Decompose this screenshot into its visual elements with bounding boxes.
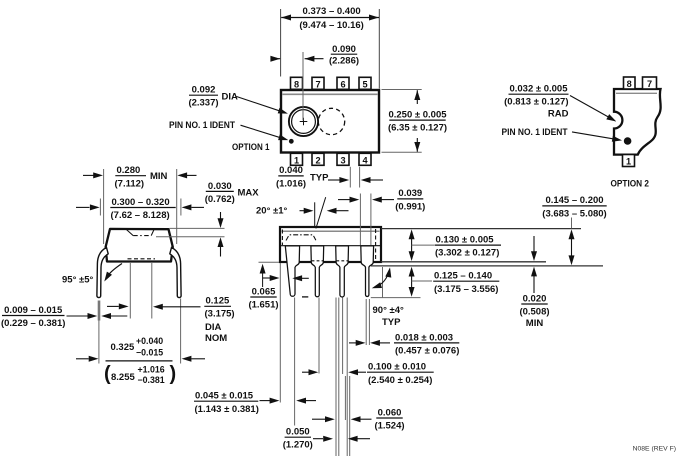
extension line: body top (right) bbox=[381, 228, 581, 230]
svg-text:N08E (REV F): N08E (REV F) bbox=[633, 446, 676, 453]
svg-text:0.325: 0.325 bbox=[111, 342, 135, 353]
svg-text:0.092: 0.092 bbox=[192, 85, 216, 96]
end view: left lead bbox=[97, 248, 108, 298]
dimension 0.325 +0.040/-0.015 row spacing bbox=[76, 358, 89, 360]
svg-text:RAD: RAD bbox=[548, 109, 569, 120]
extension line: lead 1 bbox=[294, 298, 296, 426]
svg-text:(3.302 ± 0.127): (3.302 ± 0.127) bbox=[435, 248, 499, 259]
svg-text:(1.270): (1.270) bbox=[283, 440, 313, 451]
extension line: lead 4 left bbox=[365, 299, 367, 345]
dimension 0.039 bbox=[359, 194, 361, 246]
svg-text:4: 4 bbox=[362, 155, 368, 165]
svg-text:0.060: 0.060 bbox=[378, 407, 402, 418]
svg-text:7: 7 bbox=[315, 79, 320, 89]
svg-text:0.030: 0.030 bbox=[208, 181, 232, 192]
dimension 0.018 +/-0.003 lead width bbox=[349, 342, 356, 344]
svg-text:0.125: 0.125 bbox=[206, 296, 230, 307]
side view: dashed end line left bbox=[281, 230, 283, 246]
side view: package body outline bbox=[280, 227, 381, 262]
extension line: lead 3 centre bbox=[344, 376, 346, 420]
svg-text:(0.991): (0.991) bbox=[395, 201, 425, 212]
svg-text:(0.508): (0.508) bbox=[519, 307, 549, 318]
svg-text:0.065: 0.065 bbox=[252, 286, 276, 297]
svg-text:OPTION 1: OPTION 1 bbox=[232, 142, 270, 153]
extension line: body bottom (left) bbox=[259, 261, 280, 263]
svg-text:−0.381: −0.381 bbox=[138, 375, 165, 385]
svg-text:(1.143 ± 0.381): (1.143 ± 0.381) bbox=[195, 404, 259, 415]
side view: seam line bbox=[281, 245, 380, 247]
side view: dashed end line bbox=[375, 229, 377, 261]
svg-text:−0.015: −0.015 bbox=[136, 347, 163, 357]
end view: lead thickness gauge bar bbox=[98, 301, 101, 321]
svg-text:90° ±4°: 90° ±4° bbox=[373, 305, 405, 316]
top view: alternate ident dashed circle bbox=[318, 108, 344, 134]
option 2 view: package corner outline bbox=[614, 89, 661, 155]
svg-text:0.100 ± 0.010: 0.100 ± 0.010 bbox=[368, 362, 426, 373]
dimension 90 deg typ lead angle bbox=[376, 271, 390, 288]
svg-text:0.373 – 0.400: 0.373 – 0.400 bbox=[303, 6, 361, 17]
top view: package body outline bbox=[281, 90, 379, 153]
option 2 view: pin no. 1 ident dot bbox=[624, 137, 632, 145]
svg-text:(3.175): (3.175) bbox=[205, 309, 235, 320]
top view: pin 7 lead tab bbox=[312, 77, 324, 89]
svg-text:(3.683 – 5.080): (3.683 – 5.080) bbox=[542, 208, 606, 219]
svg-text:20° ±1°: 20° ±1° bbox=[256, 206, 288, 217]
extension line: lead tip plane bbox=[371, 297, 421, 299]
svg-text:0.250 ± 0.005: 0.250 ± 0.005 bbox=[388, 109, 447, 120]
svg-text:+1.016: +1.016 bbox=[138, 364, 165, 374]
svg-text:(0.229 – 0.381): (0.229 – 0.381) bbox=[1, 318, 65, 329]
end view: right lead extension line bbox=[180, 299, 182, 364]
svg-text:0.020: 0.020 bbox=[523, 293, 547, 304]
extension line: lead 4 right bbox=[368, 299, 370, 345]
end view: package body outline bbox=[106, 229, 173, 262]
svg-text:DIA: DIA bbox=[222, 92, 239, 103]
top view: pin 2 lead tab bbox=[312, 153, 324, 165]
side view: dash-dot ident mark bbox=[286, 235, 316, 241]
svg-text:1: 1 bbox=[626, 157, 631, 167]
svg-text:DIA: DIA bbox=[205, 322, 222, 333]
svg-text:0.045 ± 0.015: 0.045 ± 0.015 bbox=[195, 391, 254, 402]
side view: seating plane tick bbox=[302, 296, 308, 298]
svg-text:+0.040: +0.040 bbox=[136, 336, 163, 346]
svg-text:1: 1 bbox=[294, 155, 299, 165]
svg-text:0.130 ± 0.005: 0.130 ± 0.005 bbox=[436, 234, 495, 245]
extension line: lead 3 outer right bbox=[349, 376, 351, 456]
svg-text:8.255: 8.255 bbox=[111, 372, 135, 383]
svg-text:(7.62 – 8.128): (7.62 – 8.128) bbox=[111, 210, 170, 221]
side view: lead 4 bbox=[361, 246, 374, 297]
svg-text:(: ( bbox=[104, 363, 111, 385]
extension line: seating plane bbox=[371, 265, 603, 267]
dimension 0.373-0.400 package length bbox=[280, 9, 282, 77]
dimension 0.100 +/-0.010 lead pitch bbox=[302, 371, 309, 373]
svg-text:(1.651): (1.651) bbox=[248, 300, 278, 311]
extension line: lead 3 wide right bbox=[346, 298, 348, 457]
svg-text:MAX: MAX bbox=[238, 187, 260, 198]
svg-text:(1.016): (1.016) bbox=[276, 178, 306, 189]
svg-text:0.280: 0.280 bbox=[117, 165, 141, 176]
extension line: body bottom (right) bbox=[381, 261, 546, 263]
dimension 0.250 +/-0.005 package width bbox=[382, 89, 422, 91]
svg-text:): ) bbox=[170, 363, 177, 385]
svg-text:0.145 – 0.200: 0.145 – 0.200 bbox=[545, 195, 603, 206]
svg-text:(0.813 ± 0.127): (0.813 ± 0.127) bbox=[504, 97, 568, 108]
dimension 0.090 ident location bbox=[302, 52, 304, 121]
dimension 0.030 max seam offset bbox=[170, 227, 225, 229]
dimension 95 deg lead angle bbox=[106, 264, 122, 279]
svg-text:OPTION 2: OPTION 2 bbox=[611, 178, 650, 189]
svg-text:TYP: TYP bbox=[382, 317, 401, 328]
top view: pin 3 lead tab bbox=[337, 153, 349, 165]
svg-text:0.018 ± 0.003: 0.018 ± 0.003 bbox=[395, 332, 453, 343]
svg-text:(3.175 – 3.556): (3.175 – 3.556) bbox=[434, 284, 498, 295]
extension line: lead 3 narrow left bbox=[338, 298, 340, 457]
top view: pin 6 lead tab bbox=[337, 77, 349, 89]
end view: top seam dashed ident bbox=[127, 230, 134, 236]
svg-text:0.300 – 0.320: 0.300 – 0.320 bbox=[112, 197, 170, 208]
svg-text:0.090: 0.090 bbox=[332, 44, 356, 55]
svg-text:5: 5 bbox=[362, 79, 367, 89]
top view: pin 1 lead tab bbox=[291, 153, 303, 165]
extension line: lead 3 wide left bbox=[335, 298, 337, 457]
svg-text:8: 8 bbox=[627, 79, 632, 89]
dimension 0.130 +/-0.005 body height bbox=[411, 234, 413, 258]
svg-text:8: 8 bbox=[294, 79, 299, 89]
dimension 0.060 lead shoulder width bbox=[312, 418, 325, 420]
extension line: lead 3 narrow right bbox=[342, 298, 344, 375]
side view: hidden edge mark on lead 2 bbox=[312, 260, 323, 262]
svg-text:(1.524): (1.524) bbox=[374, 421, 404, 432]
svg-text:0.050: 0.050 bbox=[286, 427, 310, 438]
svg-text:MIN: MIN bbox=[526, 318, 544, 329]
side view: hidden edge mark on lead 3 bbox=[336, 260, 347, 262]
option 2 view: pin 8 lead tab bbox=[624, 77, 636, 89]
top view: pin 8 lead tab bbox=[291, 77, 303, 89]
svg-text:(0.762): (0.762) bbox=[205, 194, 235, 205]
svg-text:(2.540 ± 0.254): (2.540 ± 0.254) bbox=[368, 375, 432, 386]
side view: lead 1 bbox=[285, 246, 299, 296]
dimension 0.125-0.140 standoff bbox=[411, 271, 413, 294]
svg-text:7: 7 bbox=[647, 79, 652, 89]
option 2 view: pin 1 lead tab bbox=[623, 155, 635, 167]
dimension 0.065 body edge to lead bbox=[262, 267, 264, 287]
extension line: body left edge bbox=[279, 263, 281, 403]
svg-text:95° ±5°: 95° ±5° bbox=[62, 275, 94, 286]
top view: pin 5 lead tab bbox=[359, 77, 371, 89]
svg-text:(7.112): (7.112) bbox=[115, 178, 145, 189]
dimension 0.040 typ pin tab bbox=[349, 167, 351, 188]
svg-text:NOM: NOM bbox=[205, 333, 227, 344]
top view: pin 4 lead tab bbox=[359, 153, 371, 165]
side view: lead 2 bbox=[311, 246, 324, 297]
option 2 view: pin 7 lead tab bbox=[643, 77, 657, 89]
svg-text:PIN NO. 1 IDENT: PIN NO. 1 IDENT bbox=[502, 127, 568, 138]
extension line: lead 2 bbox=[318, 298, 320, 374]
svg-text:PIN NO. 1 IDENT: PIN NO. 1 IDENT bbox=[169, 120, 235, 131]
svg-text:TYP: TYP bbox=[310, 172, 329, 183]
svg-text:(6.35 ± 0.127): (6.35 ± 0.127) bbox=[388, 123, 447, 134]
end view: right lead bbox=[170, 248, 181, 298]
svg-text:(0.457 ± 0.076): (0.457 ± 0.076) bbox=[395, 346, 459, 357]
svg-text:MIN: MIN bbox=[150, 171, 168, 182]
end view: bottom dashed mark bbox=[128, 258, 156, 260]
side view: lead 3 bbox=[336, 246, 349, 297]
extension line: body right edge bbox=[382, 267, 384, 298]
dimension 0.280 min bbox=[103, 169, 105, 244]
dimension 0.020 min bbox=[533, 236, 535, 257]
svg-text:(2.337): (2.337) bbox=[188, 98, 218, 109]
end view: lead centre lines bbox=[129, 263, 131, 319]
svg-text:0.032 ± 0.005: 0.032 ± 0.005 bbox=[509, 84, 568, 95]
svg-text:(9.474 – 10.16): (9.474 – 10.16) bbox=[299, 20, 363, 31]
svg-text:(2.286): (2.286) bbox=[329, 56, 359, 67]
dimension 0.300-0.320 bbox=[99, 199, 101, 216]
top view: pin 1 ident circle (option 1) bbox=[289, 107, 318, 136]
svg-text:0.040: 0.040 bbox=[279, 165, 303, 176]
svg-text:6: 6 bbox=[340, 79, 345, 89]
svg-text:0.125 – 0.140: 0.125 – 0.140 bbox=[434, 271, 492, 282]
svg-text:2: 2 bbox=[315, 155, 320, 165]
svg-text:3: 3 bbox=[340, 155, 345, 165]
top view: pin no. 1 ident dot bbox=[289, 139, 294, 144]
svg-text:0.009 – 0.015: 0.009 – 0.015 bbox=[4, 305, 63, 316]
svg-text:0.039: 0.039 bbox=[398, 188, 422, 199]
